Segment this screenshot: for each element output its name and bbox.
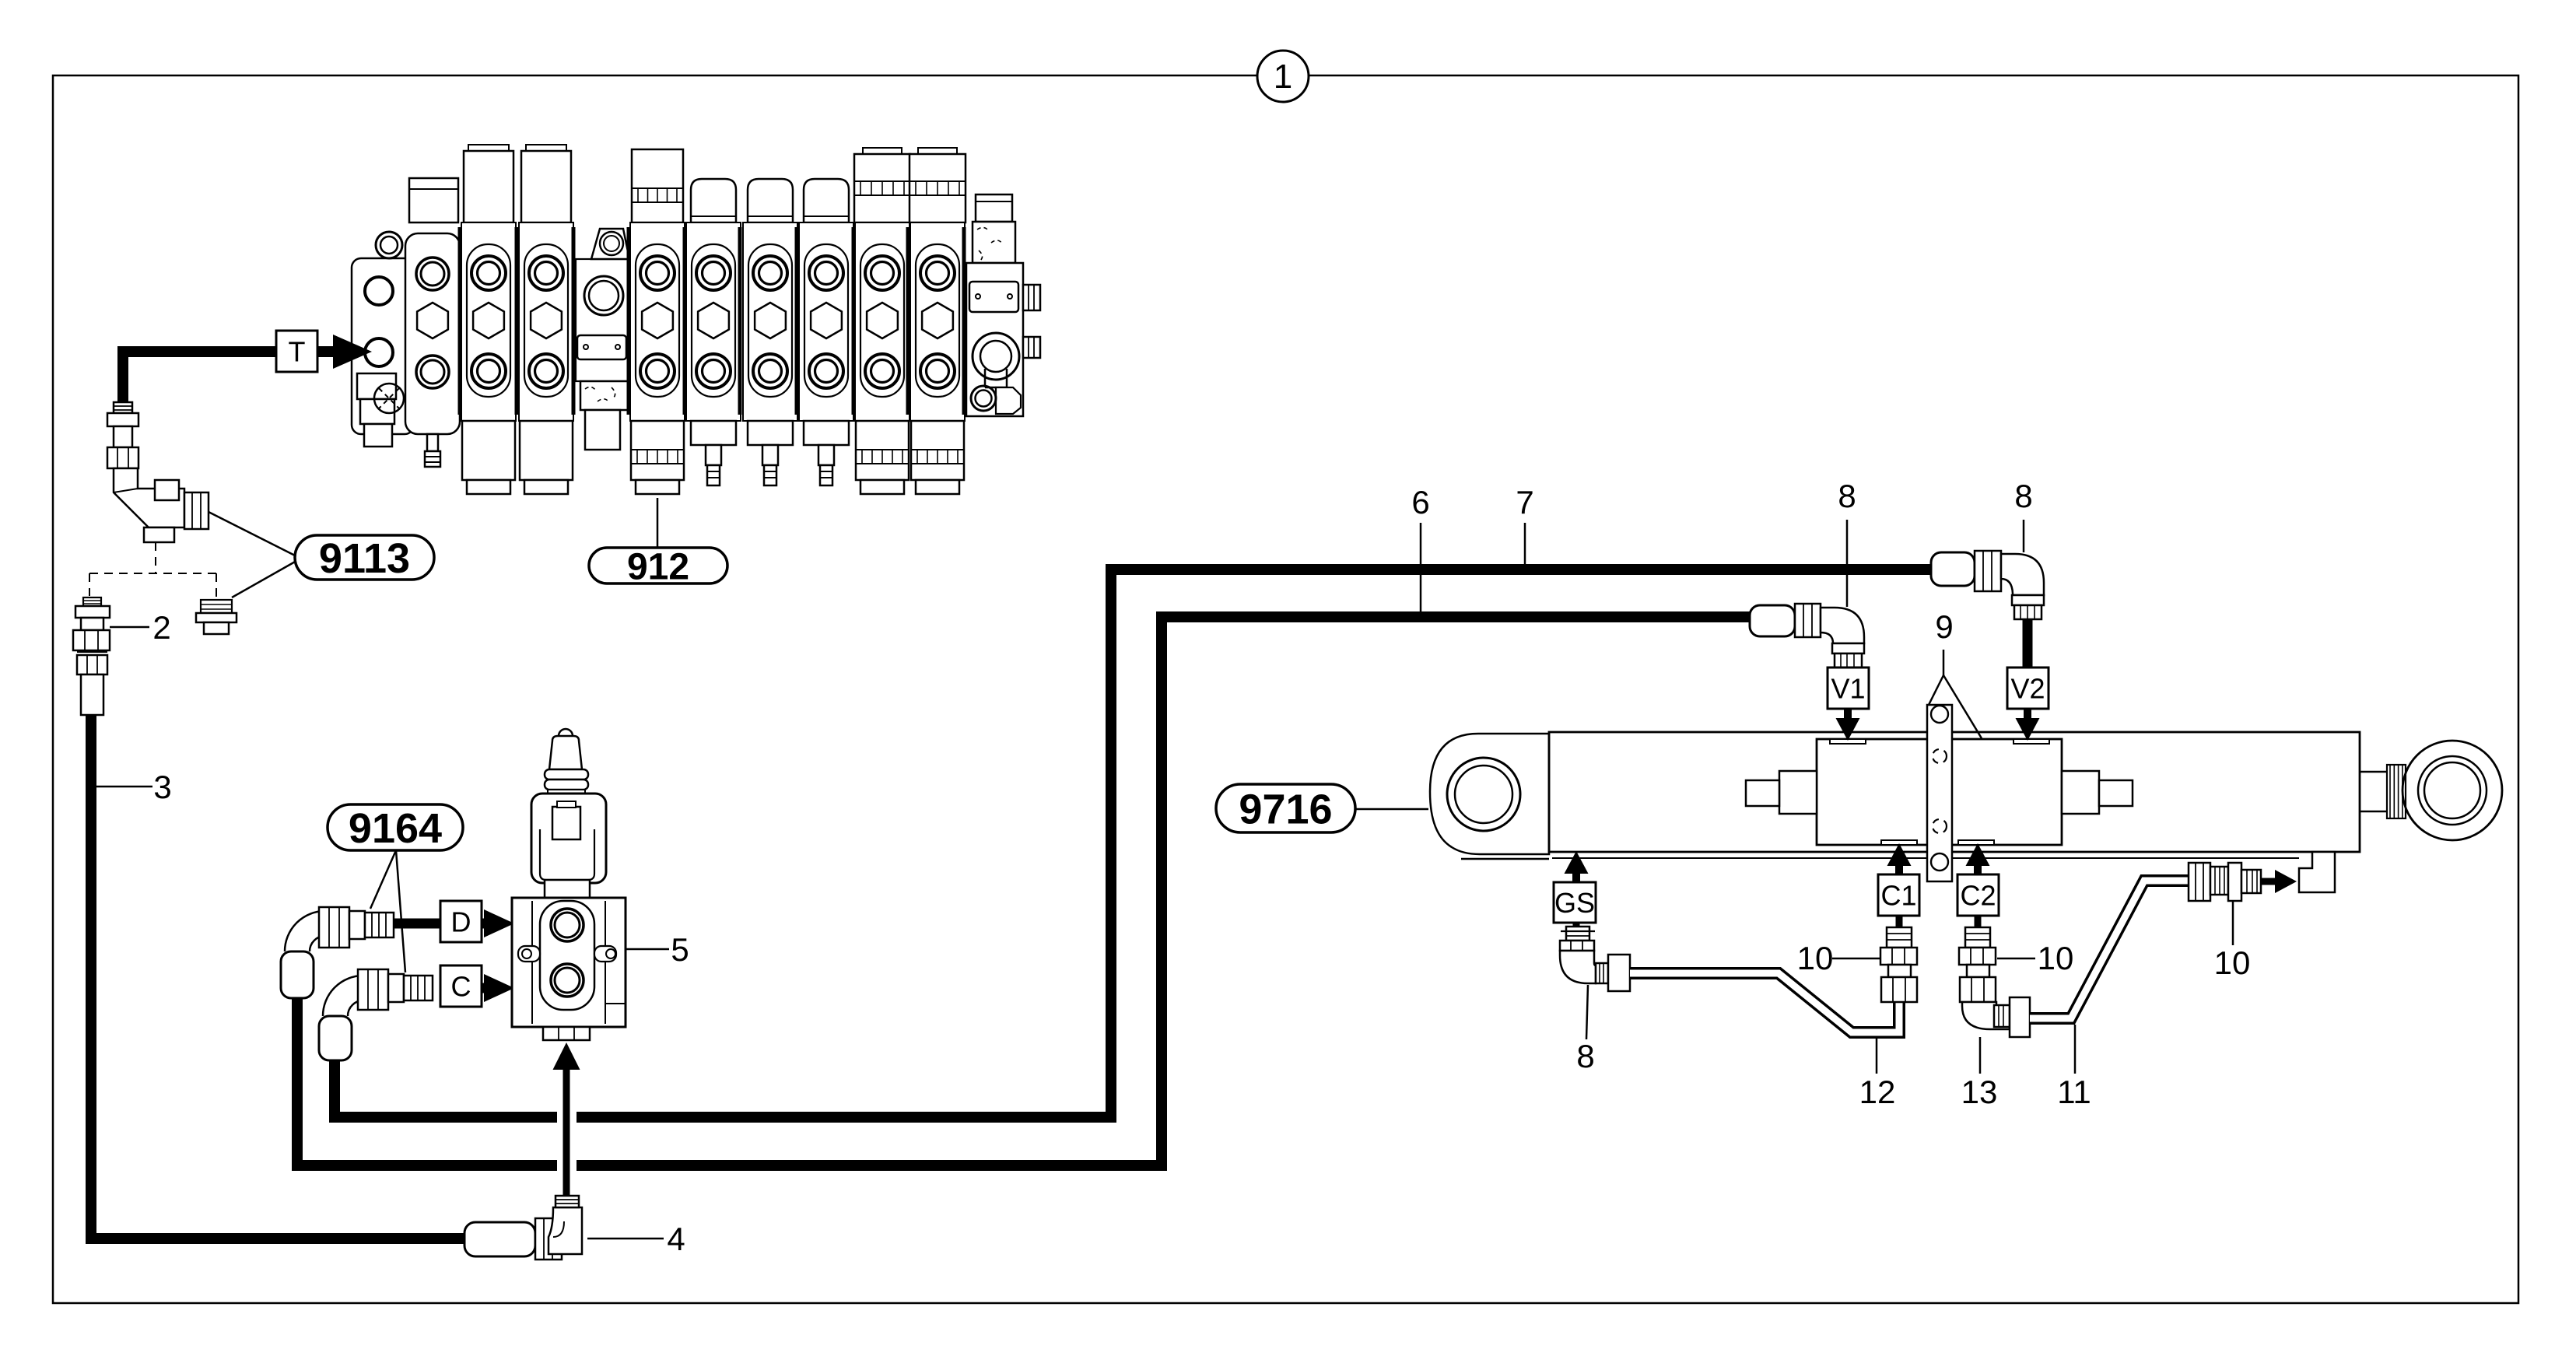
label 13 [1979, 1037, 1982, 1074]
svg-text:GS: GS [1554, 887, 1595, 919]
port label box C2 [1957, 874, 1999, 916]
svg-text:11: 11 [2057, 1074, 2091, 1110]
label 12 [1876, 1039, 1878, 1074]
label 8 bottom [1586, 985, 1588, 1039]
label 912 leader [657, 498, 659, 548]
svg-text:12: 12 [1859, 1074, 1896, 1110]
piston rod and threads [2360, 771, 2388, 773]
svg-text:V2: V2 [2010, 672, 2045, 704]
port label box V2 [2007, 667, 2049, 709]
port label box V1 [1828, 667, 1869, 709]
union fitting 10 right [2189, 863, 2210, 901]
thick link elbow to V2 [2023, 619, 2033, 667]
port label box D [440, 901, 482, 942]
hose 3 [91, 715, 464, 1239]
svg-text:10: 10 [2038, 940, 2074, 976]
valve 5 main body [545, 880, 590, 899]
svg-text:9164: 9164 [349, 805, 442, 852]
arrow hose 4 into valve 5 [563, 1067, 570, 1197]
port label box C1 [1878, 874, 1919, 916]
svg-text:T: T [289, 335, 306, 367]
arrow into valve 5 D port [482, 919, 485, 929]
rod eye right [2403, 741, 2502, 840]
C2 elbow below [1962, 1002, 2010, 1029]
label 5 [626, 948, 669, 951]
svg-text:C1: C1 [1880, 879, 1916, 911]
arrow C2 into block [1974, 865, 1982, 874]
svg-text:10: 10 [1797, 940, 1834, 976]
svg-text:8: 8 [1838, 478, 1856, 514]
valve section s6 [748, 179, 793, 222]
valve section s1 [468, 145, 509, 152]
label 9113 leaders [209, 512, 295, 555]
bottom port block [2299, 852, 2335, 892]
hose 6 end fitting and elbow 8 to V1 [1750, 605, 1795, 636]
C line elbow and bulkhead fitting [319, 1016, 352, 1060]
adapter stack below tank hose [114, 402, 132, 413]
pipe 12 [1630, 973, 1899, 1032]
rod-end eye [1447, 758, 1520, 831]
control valve assembly 912 : left end block [352, 258, 414, 434]
port label box GS [1554, 882, 1596, 923]
arrow C1 into block [1895, 865, 1903, 874]
label 9716 oval [1216, 784, 1355, 832]
label 4 [587, 1238, 664, 1240]
hose 7 run (C-port to V2) [335, 1056, 557, 1117]
right trunnion stubs [2062, 771, 2099, 814]
svg-text:V1: V1 [1831, 672, 1865, 704]
svg-text:9716: 9716 [1239, 786, 1332, 832]
bulkhead fitting below item 2 [77, 651, 107, 653]
valve section s3 (swing section with mounting lug) [576, 259, 629, 381]
svg-text:C2: C2 [1960, 879, 1996, 911]
valve 5 solenoid body [531, 794, 606, 883]
valve section s9 [918, 148, 957, 181]
svg-text:912: 912 [627, 546, 689, 587]
port pads [1830, 739, 1866, 744]
svg-text:C: C [451, 970, 471, 1002]
hose 7 end fitting and elbow 8 to V2 [1931, 552, 1975, 586]
valve section s8 [863, 148, 902, 181]
hose-end fitting 4 [464, 1222, 535, 1256]
mounting strap item 9 [1927, 705, 1952, 881]
label 9113 oval [295, 535, 434, 580]
svg-text:8: 8 [2014, 478, 2032, 514]
svg-text:7: 7 [1516, 484, 1533, 520]
svg-text:10: 10 [2214, 944, 2251, 981]
svg-text:4: 4 [667, 1221, 685, 1257]
svg-text:9113: 9113 [319, 535, 410, 582]
svg-text:1: 1 [1274, 58, 1292, 96]
label 3 [96, 786, 152, 788]
cylinder rod-end housing [1430, 734, 1549, 854]
arrow V2 into block [2024, 709, 2031, 719]
svg-text:8: 8 [1576, 1038, 1594, 1074]
port label box T [276, 331, 317, 372]
hose to tank port with corner [123, 352, 278, 402]
valve section s7 [804, 179, 849, 222]
right end block with relief valve [976, 194, 1012, 222]
svg-text:6: 6 [1411, 484, 1429, 520]
valve section s5 [691, 179, 736, 222]
valve section s4 [632, 149, 683, 222]
label 9716 leader [1355, 808, 1428, 811]
label 2 [110, 626, 149, 629]
arrow into port block [2261, 878, 2275, 885]
svg-text:2: 2 [152, 609, 170, 646]
pipe 11 [2030, 881, 2189, 1018]
label 10 lower right [2232, 901, 2234, 945]
center valve block on cylinder [1817, 739, 2062, 845]
joint bars between valve sections [458, 227, 462, 415]
thick link into D [394, 919, 440, 929]
svg-text:5: 5 [671, 931, 689, 968]
svg-text:9: 9 [1935, 608, 1953, 645]
C1 fitting stack 10 [1896, 916, 1903, 928]
GS elbow fitting 8 [1573, 923, 1580, 927]
label 912 oval [589, 548, 727, 583]
label 11 [2074, 1025, 2077, 1074]
left trunnion stubs [1779, 771, 1817, 814]
callout 1 (sheet balloon) [1257, 51, 1309, 102]
D line elbow and bulkhead fitting [281, 951, 314, 998]
fitting item 2 [83, 597, 101, 606]
arrow V1 into block [1844, 709, 1852, 719]
arrow GS into cylinder [1572, 873, 1580, 882]
plug fitting (9113) [201, 600, 232, 613]
elbow fitting 9113 [114, 468, 184, 527]
arrow into valve 5 C port [482, 983, 485, 993]
svg-text:D: D [451, 906, 471, 937]
label 9164 oval [328, 804, 463, 850]
port label box C [440, 965, 482, 1007]
hose 6 run (D-port to V1) [297, 998, 557, 1165]
svg-text:3: 3 [153, 769, 171, 805]
dashed locating lines [155, 542, 156, 573]
cylinder barrel [1549, 732, 2360, 852]
svg-text:13: 13 [1961, 1074, 1998, 1110]
label 9164 leaders [370, 850, 396, 909]
valve section s2 [526, 145, 566, 152]
arrow into tank port [317, 346, 335, 357]
C2 fitting stack 10 [1975, 916, 1982, 928]
valve 5 pilot cap [559, 729, 573, 743]
